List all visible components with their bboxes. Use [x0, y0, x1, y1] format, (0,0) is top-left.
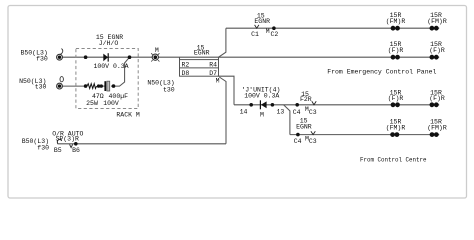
svg-text:M: M — [266, 28, 270, 35]
svg-text:F2R: F2R — [300, 96, 312, 103]
svg-text:100V 0.3A: 100V 0.3A — [244, 92, 279, 99]
svg-text:EGNR: EGNR — [194, 49, 210, 56]
contacts lineA pair1 15R (F)R — [388, 89, 404, 107]
svg-text:(F)R: (F)R — [429, 95, 445, 102]
contacts lineB pair2 15R (FM)R — [427, 119, 447, 138]
svg-text:(F)R: (F)R — [388, 95, 404, 102]
wire resistor to capacitor — [99, 85, 106, 87]
wire stub R2 box left to wire — [179, 57, 181, 59]
svg-text:J/H/O: J/H/O — [99, 40, 119, 47]
wire D7 corner down to switch line — [219, 77, 226, 144]
resistor R 47ohm zigzag — [87, 84, 97, 89]
junction dot N50 line inside box — [84, 84, 88, 88]
junction dot after capacitor — [112, 84, 116, 88]
capacitor C 400uF plates — [104, 81, 106, 91]
wire switch line — [58, 143, 227, 145]
svg-text:25W: 25W — [86, 100, 98, 107]
svg-text:C2: C2 — [270, 31, 278, 38]
svg-text:From Control Centre: From Control Centre — [360, 157, 427, 164]
svg-text:EGNR: EGNR — [296, 124, 312, 131]
wire stub R4 box right to wire — [218, 57, 220, 59]
svg-text:(F)R: (F)R — [429, 47, 445, 54]
dashed box RACK M — [76, 49, 138, 109]
diode D1 in rack — [103, 53, 108, 61]
junction dots between resistor and capacitor — [97, 84, 100, 87]
svg-text:SP(3)R: SP(3)R — [55, 136, 79, 143]
svg-text:13: 13 — [276, 109, 284, 116]
svg-text:t30: t30 — [35, 84, 47, 91]
svg-text:f30: f30 — [36, 56, 48, 63]
svg-text:100V: 100V — [103, 100, 119, 107]
svg-text:(F)R: (F)R — [388, 47, 404, 54]
junction dot capacitor branch joins diode line — [128, 55, 132, 59]
line1 C2 dot — [272, 26, 276, 30]
svg-text:14: 14 — [240, 109, 248, 116]
switch B6 v-notch — [70, 144, 73, 147]
wire main top B50 line — [63, 56, 153, 58]
diode D2 J unit pointing left — [260, 100, 266, 109]
line1 C1 V-notch — [255, 25, 259, 28]
svg-text:N50(L3): N50(L3) — [147, 79, 174, 86]
svg-text:B5: B5 — [54, 147, 62, 154]
border frame — [8, 6, 467, 199]
contacts line2 pair1 15R (F)R — [388, 41, 404, 59]
svg-text:D8: D8 — [182, 70, 190, 77]
svg-text:C1: C1 — [251, 31, 259, 38]
svg-text:M: M — [260, 112, 264, 119]
connector M mid — [151, 53, 159, 61]
contacts lineB pair1 15R (FM)R — [386, 119, 406, 138]
svg-text:100V 0.3A: 100V 0.3A — [93, 63, 128, 70]
switch O/R AUTO SP(3)R — [57, 139, 61, 144]
svg-text:(FM)R: (FM)R — [427, 124, 447, 131]
svg-text:From Emergency Control Panel: From Emergency Control Panel — [327, 69, 436, 76]
wire N50 resistor line — [63, 85, 88, 87]
svg-text:C3: C3 — [309, 138, 317, 145]
svg-text:D7: D7 — [209, 70, 217, 77]
svg-text:f30: f30 — [37, 145, 49, 152]
svg-text:(FM)R: (FM)R — [386, 124, 406, 131]
svg-text:M: M — [155, 47, 159, 54]
svg-text:EGNR: EGNR — [254, 18, 270, 25]
svg-text:C4: C4 — [293, 109, 301, 116]
wire line B — [290, 134, 439, 136]
svg-text:(FM)R: (FM)R — [427, 18, 447, 25]
wire riser line2 up to line1 — [219, 28, 226, 57]
junction dot B6 — [74, 142, 78, 146]
contacts line1 pair2 15R (FM)R — [427, 12, 447, 31]
junction dot 13 — [271, 103, 275, 107]
svg-text:B6: B6 — [72, 147, 80, 154]
contacts line2 pair2 15R (F)R — [429, 41, 445, 59]
wire branch line A down to line B — [284, 105, 290, 135]
contacts line1 pair1 15R (FM)R — [386, 12, 406, 31]
junction dot B50 line inside box — [84, 55, 88, 59]
wire M connector to right end line2 — [158, 56, 439, 58]
line A C4 dot — [295, 103, 299, 107]
svg-text:R2: R2 — [182, 61, 190, 68]
svg-text:C4: C4 — [294, 138, 302, 145]
connector J B50 — [57, 49, 63, 61]
line B C3 V-notch — [311, 131, 315, 134]
contacts lineA pair2 15R (F)R — [429, 89, 445, 107]
wire line1 top right — [226, 27, 439, 29]
wire line A — [234, 104, 439, 106]
wire capacitor branch up to diode line — [111, 57, 130, 86]
R2 D8 relay box — [180, 60, 219, 77]
line B C4 dot — [296, 133, 300, 137]
junction dot 14 — [249, 103, 253, 107]
svg-text:C3: C3 — [309, 109, 317, 116]
line A C3 V-notch — [312, 101, 316, 105]
svg-text:M: M — [216, 77, 220, 84]
svg-text:RACK M: RACK M — [116, 112, 140, 119]
wire D7 corner to line A — [219, 76, 235, 105]
svg-text:(FM)R: (FM)R — [386, 18, 406, 25]
svg-text:R4: R4 — [209, 61, 217, 68]
connector O N50 — [57, 77, 64, 89]
svg-text:t30: t30 — [163, 87, 175, 94]
